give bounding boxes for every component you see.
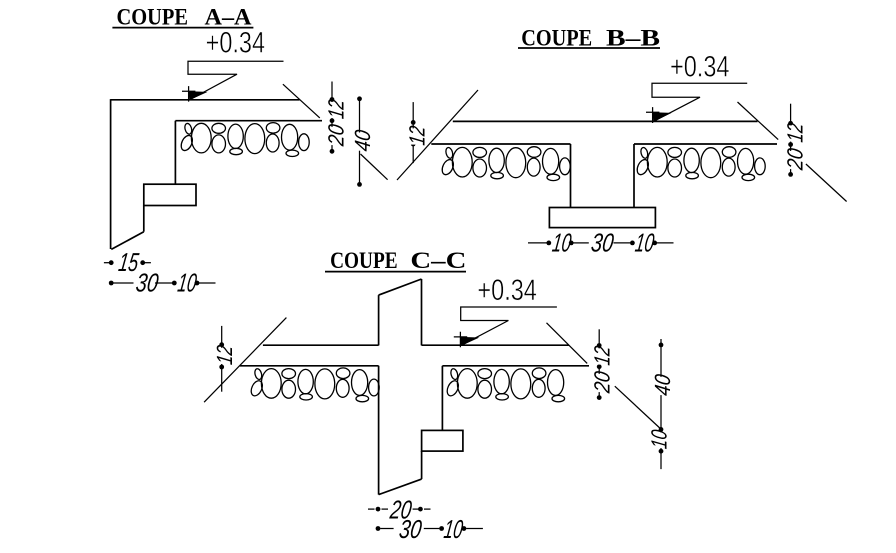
svg-text:12: 12: [590, 344, 615, 366]
break line lower (A-A): [361, 154, 388, 180]
deck slab top line (A-A): [111, 99, 300, 101]
svg-text:+0.34: +0.34: [477, 274, 537, 307]
dim line 40 (A-A): [357, 96, 362, 186]
title COUPE C-C: [325, 248, 466, 273]
stem right edge (B-B): [633, 144, 635, 208]
gravel top line right (C-C): [442, 365, 589, 367]
slab top line right (C-C): [422, 344, 569, 346]
svg-text:30: 30: [397, 514, 424, 544]
break line right upper (C-C): [547, 323, 588, 364]
corbel step (C-C): [422, 430, 463, 451]
svg-text:20: 20: [324, 122, 349, 148]
stem left edge lower (C-C): [378, 366, 380, 495]
gravel stones left (C-C): [249, 368, 379, 402]
svg-text:10: 10: [551, 228, 574, 258]
dim row 10/30/10 (B-B): [528, 241, 674, 246]
gravel top line (A-A): [175, 120, 322, 122]
dim line 12 left (B-B): [411, 102, 416, 163]
svg-text:20: 20: [590, 369, 615, 395]
svg-text:+0.34: +0.34: [206, 27, 266, 60]
break line right lower (C-C): [615, 386, 661, 428]
svg-text:30: 30: [134, 267, 161, 297]
dim chain 12/20 right (C-C): [597, 329, 602, 400]
dim 15 (A-A): [104, 260, 151, 265]
svg-text:A–A: A–A: [205, 4, 252, 29]
dim row 30/10 (A-A): [109, 281, 216, 286]
stem left edge upper (C-C): [378, 295, 380, 345]
title COUPE B-B: [518, 26, 660, 51]
dim chain 12/20 right (B-B): [788, 104, 793, 177]
dim label 12 (A-A): [324, 98, 349, 120]
level marker flag (A-A): [188, 61, 284, 100]
dim label 12 left (B-B): [405, 124, 430, 146]
dim label 12 right (C-C): [590, 344, 615, 366]
svg-text:12: 12: [405, 124, 430, 146]
svg-text:COUPE: COUPE: [521, 26, 592, 51]
svg-text:+0.34: +0.34: [670, 50, 730, 83]
svg-text:40: 40: [350, 128, 375, 153]
break line left (C-C): [204, 318, 286, 403]
wall outer edge (A-A): [110, 99, 112, 249]
stem right edge lower (C-C): [421, 451, 423, 479]
footing step (A-A): [144, 184, 196, 205]
svg-text:12: 12: [324, 98, 349, 120]
svg-text:12: 12: [212, 344, 237, 366]
wall bottom break cut (A-A): [111, 232, 144, 250]
level marker cross (C-C): [454, 332, 467, 348]
stem left edge (B-B): [570, 144, 572, 208]
wall edge below footing (A-A): [143, 206, 145, 232]
break line right lower (B-B): [806, 164, 847, 202]
dim label 40 (C-C): [650, 372, 675, 397]
level marker cross (A-A): [182, 86, 195, 102]
svg-text:10: 10: [176, 267, 199, 297]
level marker cross (B-B): [646, 107, 659, 123]
deck slab top line (B-B): [453, 120, 758, 122]
gravel stones (A-A): [179, 123, 309, 157]
dim 20 bottom (C-C): [368, 507, 431, 512]
svg-text:10: 10: [633, 228, 656, 258]
dim chain line 12/20 (A-A): [330, 82, 335, 154]
level marker flag (C-C): [461, 307, 557, 345]
wall inner edge (A-A): [174, 121, 176, 185]
dim line 12 left (C-C): [219, 326, 224, 392]
title COUPE A-A: [112, 4, 253, 29]
svg-text:12: 12: [782, 121, 807, 143]
dim row 30/10 bottom (C-C): [376, 526, 483, 531]
svg-text:B–B: B–B: [606, 26, 660, 51]
level marker arrowhead (C-C): [460, 337, 479, 346]
gravel stones right (B-B): [635, 147, 765, 181]
svg-text:20: 20: [782, 146, 807, 172]
gravel top line left (B-B): [431, 143, 570, 145]
dim label 20 right (C-C): [590, 369, 615, 395]
svg-text:40: 40: [650, 372, 675, 397]
gravel top line left (C-C): [240, 365, 379, 367]
stem top break cut (C-C): [379, 279, 422, 295]
gravel stones left (B-B): [440, 147, 570, 181]
dim line 40/10 (C-C): [659, 339, 664, 469]
stem right edge below slab (C-C): [441, 366, 443, 431]
dim label 12 left (C-C): [212, 344, 237, 366]
gravel top line right (B-B): [634, 143, 777, 145]
svg-text:10: 10: [442, 514, 465, 544]
svg-text:10: 10: [647, 428, 672, 451]
dim label 20 (A-A): [324, 122, 349, 148]
level marker flag (B-B): [652, 83, 747, 121]
svg-text:C–C: C–C: [410, 248, 466, 273]
svg-text:COUPE: COUPE: [117, 4, 189, 29]
footing (B-B): [549, 208, 655, 228]
gravel stones right (C-C): [445, 368, 565, 402]
stem right edge upper (C-C): [421, 279, 423, 345]
dim label 10 vertical (C-C): [647, 428, 672, 451]
svg-text:COUPE: COUPE: [330, 248, 398, 273]
break line left (B-B): [397, 90, 478, 180]
stem bottom break cut (C-C): [379, 479, 422, 495]
break line right upper (B-B): [738, 102, 779, 140]
dim label 20 right (B-B): [782, 146, 807, 172]
break line upper (A-A): [283, 84, 320, 118]
dim label 12 right (B-B): [782, 121, 807, 143]
svg-text:30: 30: [589, 228, 616, 258]
dim label 40 (A-A): [350, 128, 375, 153]
level marker arrowhead (A-A): [189, 91, 208, 100]
level marker arrowhead (B-B): [653, 112, 672, 121]
slab top line left (C-C): [263, 344, 379, 346]
